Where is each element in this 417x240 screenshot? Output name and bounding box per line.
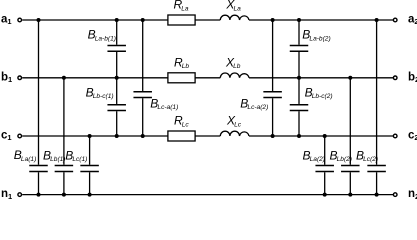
svg-text:BLa-b(1): BLa-b(1) [88, 28, 116, 43]
svg-text:BLa(2): BLa(2) [303, 148, 326, 163]
svg-text:BLc-a(2): BLc-a(2) [240, 96, 268, 111]
svg-text:BLc(1): BLc(1) [65, 148, 87, 163]
svg-text:XLa: XLa [225, 0, 241, 13]
svg-text:BLb(2): BLb(2) [330, 148, 353, 163]
svg-text:BLb-c(1): BLb-c(1) [86, 85, 114, 100]
svg-text:XLb: XLb [225, 55, 241, 70]
svg-text:b2: b2 [408, 71, 417, 84]
svg-text:BLa-b(2): BLa-b(2) [302, 28, 330, 43]
svg-text:n2: n2 [408, 188, 417, 200]
svg-text:RLa: RLa [174, 0, 189, 13]
svg-text:BLc(2): BLc(2) [356, 148, 378, 163]
svg-text:c1: c1 [1, 130, 12, 143]
svg-text:RLc: RLc [174, 114, 189, 129]
svg-text:RLb: RLb [174, 55, 189, 70]
svg-text:c2: c2 [408, 130, 417, 143]
svg-text:BLa(1): BLa(1) [14, 148, 37, 163]
svg-text:b1: b1 [1, 71, 12, 84]
svg-text:a1: a1 [1, 14, 12, 27]
svg-text:BLc-a(1): BLc-a(1) [150, 96, 178, 111]
svg-text:n1: n1 [1, 188, 12, 200]
svg-text:BLb(1): BLb(1) [43, 148, 66, 163]
svg-text:XLc: XLc [226, 114, 242, 129]
svg-text:BLb-c(2): BLb-c(2) [305, 85, 333, 100]
svg-text:a2: a2 [408, 14, 417, 27]
